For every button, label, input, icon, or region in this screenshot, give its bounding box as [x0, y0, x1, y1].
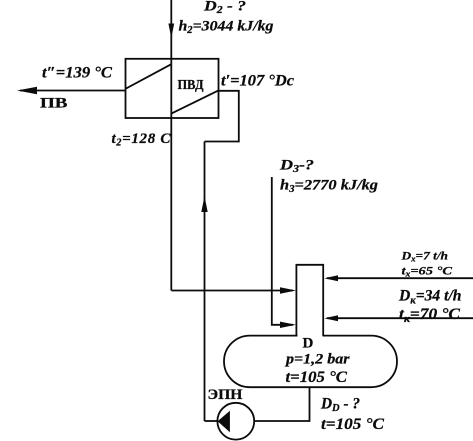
wire: condensate inlet jog from t'=107 down to riser [205, 91, 239, 142]
svg-text:t=105 °C: t=105 °C [321, 416, 384, 433]
label DD - ? [320, 396, 360, 415]
svg-text:h2=3044 kJ/kg: h2=3044 kJ/kg [179, 18, 275, 36]
svg-text:tх=65 °C: tх=65 °C [402, 264, 454, 279]
arrowhead: drain into column right [280, 287, 296, 293]
label p=1,2 bar [284, 352, 350, 368]
svg-text:p=1,2 bar: p=1,2 bar [284, 352, 350, 368]
pump impeller triangle [218, 411, 230, 432]
arrowhead: D3 into column right [280, 322, 296, 328]
svg-text:t=105 °C: t=105 °C [286, 369, 348, 386]
label Dx=7 t/h [400, 249, 448, 264]
label t'=107 Dc [221, 73, 294, 90]
label t2=128 C [112, 131, 172, 149]
svg-text:t2=128 C: t2=128 C [112, 131, 172, 149]
svg-text:D: D [303, 336, 314, 352]
label D2 - ? [203, 0, 246, 16]
label tx=65 C [402, 264, 454, 279]
wire: feedwater outlet ПВ to the left [20, 90, 126, 92]
arrowhead: steam D2 down [168, 24, 174, 39]
wire: steam line D2 vertical into heater and drain down [170, 0, 172, 291]
label ПВ [40, 96, 68, 112]
label Dk=34 t/h [398, 288, 462, 307]
label h3=2770 kJ/kg [280, 178, 379, 196]
label D deaerator [303, 336, 314, 352]
svg-text:ЭПН: ЭПН [208, 387, 243, 403]
arrowhead: Dk into column left [324, 315, 338, 321]
label t=105 C pump [321, 416, 384, 433]
heater U1 ПВД box [126, 59, 219, 118]
svg-text:t″=139 °C: t″=139 °C [42, 65, 112, 82]
label D3-? [279, 158, 314, 176]
label tk=70 C [399, 306, 460, 325]
wire: condensate return Dk right [327, 317, 473, 319]
heater tube zigzag lower diagonal [171, 90, 218, 113]
arrowhead: condensate riser up [201, 196, 207, 212]
deaerator tank stadium [224, 336, 397, 388]
svg-text:ПВ: ПВ [40, 96, 68, 112]
svg-text:h3=2770 kJ/kg: h3=2770 kJ/kg [280, 178, 379, 196]
heater tube zigzag upper diagonal [126, 64, 172, 89]
white gap in tank top under column [298, 334, 323, 337]
svg-text:DD - ?: DD - ? [320, 396, 360, 415]
wire: drain t2=128 to deaerator column [171, 290, 293, 292]
svg-text:D3-?: D3-? [279, 158, 314, 176]
svg-text:Dк=34 t/h: Dк=34 t/h [398, 288, 462, 307]
svg-text:t′=107 °Dc: t′=107 °Dc [221, 73, 294, 90]
pump ЭПН circle [217, 403, 254, 440]
wire: tank outlet down to pump [254, 387, 309, 421]
label h2=3044 kJ/kg [179, 18, 275, 36]
deaerator column [296, 265, 323, 336]
wire: cold inflow Dx top right [327, 277, 473, 279]
wire: heating steam D3 down and into column [272, 177, 293, 325]
svg-text:D2 - ?: D2 - ? [203, 0, 246, 16]
svg-text:ПВД: ПВД [178, 78, 204, 93]
wire: condensate riser from pump up [204, 142, 206, 422]
label ПВД [178, 78, 204, 93]
arrowhead: ПВ left [17, 87, 37, 94]
svg-text:tк=70 °C: tк=70 °C [399, 306, 460, 325]
label t=105 C tank [286, 369, 348, 386]
svg-text:Dх=7 t/h: Dх=7 t/h [400, 249, 448, 264]
arrowhead: Dx into column left [324, 275, 338, 281]
label ЭПН [208, 387, 243, 403]
wire: pump discharge to riser [205, 420, 218, 422]
label t''=139 C [42, 65, 112, 82]
